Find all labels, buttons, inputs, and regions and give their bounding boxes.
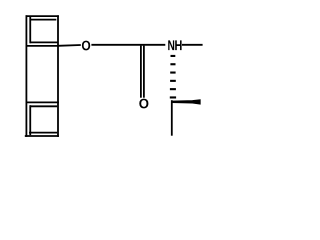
ring lower-left inner double-bond line [29,105,31,135]
NH label: H [175,40,181,50]
ring lower inner divider line [30,105,57,107]
C=O double bond line 1 [140,46,142,98]
ring upper-left inner double-bond line [29,16,31,43]
ring left outer vertical [25,15,27,137]
ring right vertical [57,15,59,137]
ring upper outer divider and bond to ester O [26,44,81,47]
ring top inner double-bond line [30,19,56,21]
ring bottom inner double-bond line [29,132,57,134]
solid wedge bond stereocenter to methyl [173,100,201,105]
hashed wedge bond NH to stereocenter [170,55,176,99]
ring lower outer divider [26,101,59,103]
bond NH to N-methyl [182,44,203,46]
ring bottom outer bond [25,135,59,137]
ester O label [82,41,90,51]
ring upper inner divider line [30,41,58,43]
carbonyl O label [139,99,148,109]
ring top outer bond [26,15,59,17]
bond stereocenter down to methyl [171,100,173,136]
bond ester O to carbonyl C to NH [91,44,165,46]
C=O double bond line 2 [143,46,145,98]
NH label: N [168,40,174,50]
